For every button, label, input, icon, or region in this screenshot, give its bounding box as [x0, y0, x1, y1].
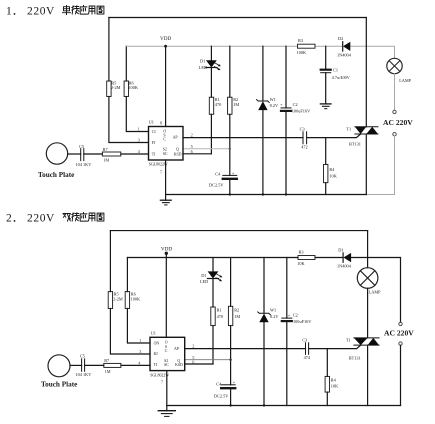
wire R1' to LED return: [212, 326, 214, 364]
svg-text:1．: 1．: [6, 6, 23, 18]
wire R4' to bottom rail: [326, 392, 328, 405]
resistor R3: [298, 44, 316, 48]
triac T1: [355, 127, 378, 134]
wire LED' to R1': [212, 279, 214, 308]
svg-text:220V: 220V: [27, 6, 55, 18]
wire R4' branch: [326, 349, 328, 377]
resistor R4: [324, 164, 328, 182]
wire AC2 to bottom rail: [400, 345, 402, 405]
svg-text:D1: D1: [201, 273, 206, 278]
svg-text:2．: 2．: [6, 213, 23, 225]
svg-text:8.2V: 8.2V: [270, 103, 279, 108]
svg-text:VDD: VDD: [160, 36, 171, 42]
svg-text:LED: LED: [200, 279, 208, 284]
svg-text:DC2.5V: DC2.5V: [214, 393, 229, 398]
svg-text:D1: D1: [200, 58, 205, 63]
svg-text:10K: 10K: [297, 261, 305, 266]
triac T1': [354, 338, 379, 345]
svg-text:VDD: VDD: [161, 247, 172, 253]
svg-text:104 1KV: 104 1KV: [76, 372, 93, 377]
svg-text:LAMP: LAMP: [399, 78, 412, 83]
wire rail A left drop to R5: [108, 18, 110, 82]
rail A top: [109, 17, 366, 19]
svg-text:R4: R4: [329, 167, 335, 172]
resistor R6: [125, 46, 127, 81]
svg-text:+: +: [288, 313, 291, 318]
svg-text:W1: W1: [270, 97, 276, 102]
wire IC2 bottom stub: [166, 371, 168, 411]
resistor R7': [104, 363, 121, 367]
wire C4' to bottom rail: [230, 389, 232, 405]
lamp LAMP2: [357, 268, 378, 289]
wire R7 to IC pin4: [121, 153, 149, 155]
wire IC bottom stub to ground: [165, 160, 167, 200]
svg-text:BT131: BT131: [349, 356, 361, 361]
capacitor C3': [306, 343, 309, 355]
wire R6 to IC pin1: [126, 97, 148, 132]
resistor R5': [108, 292, 112, 309]
svg-text:DC2.5V: DC2.5V: [209, 182, 224, 187]
svg-text:D1: D1: [338, 248, 343, 253]
svg-text:1M: 1M: [105, 369, 111, 374]
svg-text:KSD: KSD: [174, 152, 182, 156]
svg-text:KSD: KSD: [175, 363, 183, 367]
capacitor C5: [81, 149, 84, 161]
svg-text:AP: AP: [174, 347, 180, 351]
wire lamp2 drop: [367, 231, 369, 268]
svg-text:LED: LED: [199, 65, 207, 70]
svg-text:T1: T1: [346, 126, 351, 131]
svg-text:C2: C2: [293, 312, 298, 317]
wire R5' to IC pin3: [110, 309, 150, 355]
bottom rail 2: [167, 405, 401, 407]
svg-text:C: C: [163, 138, 166, 142]
wire OSC2: [185, 359, 231, 361]
AC terminal 2': [399, 342, 402, 345]
capacitor C4: [223, 174, 237, 176]
svg-text:AP: AP: [173, 136, 179, 140]
diode D2: [342, 42, 344, 51]
resistor R4': [325, 376, 329, 392]
svg-text:U1: U1: [149, 120, 154, 125]
svg-text:R4: R4: [331, 378, 337, 383]
wire LED to R1: [210, 68, 212, 98]
wire plate to C5: [68, 153, 81, 155]
svg-text:C1: C1: [333, 68, 338, 73]
svg-text:C3: C3: [302, 338, 307, 343]
svg-text:AC 220V: AC 220V: [383, 118, 413, 127]
svg-text:1: 1: [139, 338, 141, 343]
capacitor C2: [285, 46, 287, 108]
wire zener' to bottom rail: [263, 322, 265, 405]
svg-text:AC 220V: AC 220V: [384, 329, 414, 338]
svg-text:470: 470: [217, 314, 223, 319]
svg-text:470: 470: [215, 102, 221, 107]
svg-text:R7: R7: [104, 358, 110, 363]
wire C5 to R7: [84, 153, 103, 155]
lamp LAMP1: [387, 58, 402, 73]
svg-text:W1: W1: [270, 308, 276, 313]
wire triac to bottom rail: [365, 134, 367, 195]
svg-text:R7: R7: [103, 147, 109, 152]
resistor R2: [229, 46, 231, 97]
svg-text:Touch Plate: Touch Plate: [41, 380, 77, 388]
svg-text:LAMP: LAMP: [369, 290, 382, 295]
svg-text:U1: U1: [151, 330, 156, 335]
svg-text:100K: 100K: [128, 85, 138, 90]
resistor R1': [211, 307, 215, 326]
svg-text:+: +: [233, 380, 236, 385]
svg-text:10K: 10K: [329, 173, 337, 178]
rail B2: [127, 258, 400, 323]
capacitor C3: [303, 132, 307, 144]
svg-text:C4: C4: [216, 382, 222, 387]
wire rail B (VDD feed, gray): [126, 46, 394, 58]
resistor R1: [209, 97, 213, 114]
svg-text:2-2M: 2-2M: [111, 85, 121, 90]
svg-text:1M: 1M: [234, 314, 240, 319]
title 1: [6, 6, 55, 18]
gate wire 2 with C3': [185, 345, 361, 349]
svg-text:8: 8: [160, 120, 162, 125]
diode D2': [342, 253, 344, 262]
op-amp U1 (touch IC SGL8022W): [149, 127, 184, 161]
wire triac2 to bottom rail: [367, 345, 369, 405]
LED D1: [210, 46, 212, 60]
AC 220V label 2: [384, 329, 414, 338]
AC 220V label: [383, 118, 413, 127]
resistor R7: [102, 152, 121, 156]
svg-text:100uF16V: 100uF16V: [292, 109, 311, 114]
svg-text:R3: R3: [299, 250, 304, 255]
svg-text:100K: 100K: [131, 297, 141, 302]
rail A2 top: [110, 230, 367, 232]
svg-text:3: 3: [139, 349, 141, 354]
svg-text:1M: 1M: [233, 102, 239, 107]
zener W1': [263, 258, 265, 314]
svg-text:474: 474: [304, 355, 311, 360]
ground 2: [158, 410, 175, 412]
wire LED return: [183, 153, 211, 155]
wire R4 to bottom rail: [325, 183, 327, 195]
AC terminal 1: [393, 110, 396, 113]
svg-text:3: 3: [138, 138, 140, 143]
svg-text:2: 2: [191, 133, 193, 138]
svg-text:C3: C3: [300, 127, 305, 132]
svg-text:Q: Q: [176, 148, 179, 152]
capacitor C5': [82, 359, 85, 371]
gate wire with C3: [183, 134, 361, 138]
svg-text:472: 472: [301, 144, 307, 149]
wire C2' to bottom rail: [286, 322, 288, 405]
title 2: [6, 213, 55, 225]
bottom rail: [166, 194, 367, 196]
node VDD: [165, 46, 167, 126]
zener W1: [262, 46, 264, 101]
wire R1 down to LED return: [210, 114, 212, 154]
wire AC to bottom rail: [366, 136, 394, 195]
wire plate2 to C5': [70, 364, 82, 366]
svg-text:1N4004: 1N4004: [337, 263, 352, 268]
resistor R6': [126, 258, 128, 292]
svg-text:2-2M: 2-2M: [113, 297, 123, 302]
resistor R2': [230, 258, 232, 307]
svg-text:R3: R3: [298, 38, 303, 43]
svg-text:KI: KI: [154, 352, 159, 356]
svg-text:C: C: [165, 349, 168, 353]
svg-text:Touch Plate: Touch Plate: [38, 171, 74, 179]
svg-text:+: +: [232, 170, 235, 175]
svg-text:1N4004: 1N4004: [337, 53, 352, 58]
capacitor C1: [325, 46, 327, 69]
node VDD2: [165, 253, 167, 337]
title 1 hanzi 单线应用图: [63, 6, 104, 15]
LED D1': [212, 258, 214, 272]
wire LED return 2: [185, 363, 213, 365]
svg-text:2: 2: [192, 344, 194, 349]
wire lamp to AC terminal: [394, 74, 396, 111]
op-amp U1' (touch IC SGL8022W): [150, 337, 185, 370]
svg-text:10K: 10K: [331, 384, 339, 389]
wire OSC (gray): [183, 148, 230, 150]
touch plate 1: [46, 143, 67, 164]
svg-text:C4: C4: [215, 171, 221, 176]
svg-text:104 1KV: 104 1KV: [76, 162, 93, 167]
svg-text:R1: R1: [217, 308, 222, 313]
svg-text:8.2V: 8.2V: [270, 314, 279, 319]
svg-text:4.7u/400V: 4.7u/400V: [332, 75, 351, 80]
wire R5 to IC pin3: [109, 97, 149, 143]
svg-text:+: +: [280, 102, 283, 107]
ground under IC: [160, 199, 171, 201]
wire R4 branch: [325, 138, 327, 165]
resistor R5: [107, 81, 111, 97]
wire zener to ground rail: [262, 110, 264, 194]
title 2 hanzi 双线应用图: [63, 213, 104, 222]
capacitor C4': [221, 384, 235, 386]
wire triac column: [365, 18, 367, 127]
svg-text:SC: SC: [163, 152, 168, 156]
svg-text:SC: SC: [164, 363, 169, 367]
svg-text:C5: C5: [80, 354, 85, 359]
wire R2 to C4: [229, 114, 231, 175]
svg-text:C2: C2: [293, 102, 298, 107]
svg-text:C5: C5: [79, 144, 84, 149]
AC terminal 1': [399, 322, 402, 325]
svg-text:220V: 220V: [27, 213, 55, 225]
wire C5' to R7': [85, 364, 104, 366]
svg-text:100K: 100K: [297, 50, 307, 55]
wire R2' to C4': [230, 326, 232, 385]
wire C2 to ground rail: [285, 112, 287, 195]
wire C1 to ground: [325, 73, 327, 104]
svg-text:ON: ON: [154, 342, 160, 346]
touch plate 2: [48, 355, 70, 377]
svg-text:BT131: BT131: [349, 142, 361, 147]
svg-text:T1: T1: [346, 337, 351, 342]
wire R7' to IC pin4: [121, 364, 150, 366]
AC terminal 2: [393, 133, 396, 136]
wire R6' to IC pin1: [127, 309, 150, 344]
ground: [320, 103, 331, 105]
svg-text:100uF16V: 100uF16V: [293, 319, 312, 324]
wire lamp2 to triac2: [367, 288, 369, 338]
capacitor C2': [286, 258, 288, 319]
svg-text:1M: 1M: [103, 157, 109, 162]
svg-text:D2: D2: [338, 36, 343, 41]
wire rail A2 left drop: [109, 231, 111, 292]
wire C4 to ground rail: [229, 180, 231, 195]
resistor R3': [298, 256, 315, 260]
svg-text:R2: R2: [234, 308, 239, 313]
svg-text:1: 1: [138, 127, 140, 132]
